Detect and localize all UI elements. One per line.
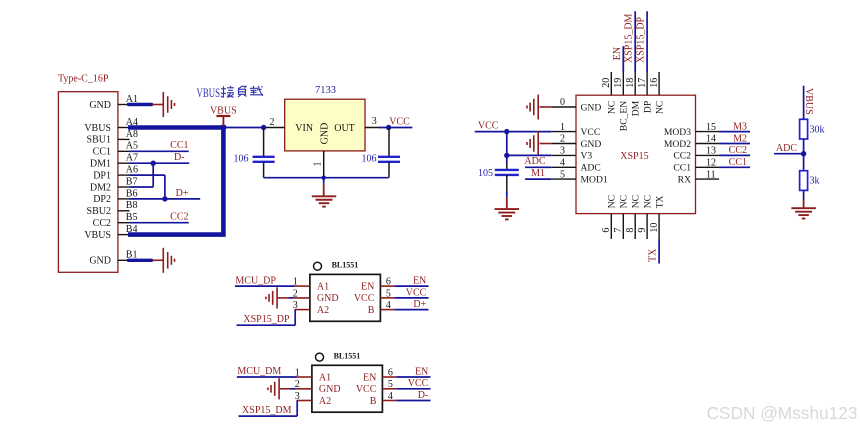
svg-text:B8: B8 [126,200,138,211]
svg-text:Type-C_16P: Type-C_16P [58,74,109,85]
wire DM1-DM2 link [129,163,153,187]
ground at A1 [152,92,175,117]
value 106 (right) [362,154,377,165]
svg-text:VCC: VCC [389,116,410,127]
svg-text:0: 0 [560,97,565,108]
svg-text:OUT: OUT [334,123,355,134]
pin 19 of XSP15 [613,72,624,95]
pin B8 [118,200,138,211]
net label D+ [176,188,189,199]
pin 13 of XSP15 [696,146,720,157]
svg-text:B: B [368,305,375,316]
net label MCU_DM [237,366,281,377]
wire MCU_DM [237,376,297,378]
svg-text:15: 15 [706,122,716,133]
svg-text:17: 17 [637,78,648,88]
wire D- (A7) [129,162,189,164]
svg-text:1: 1 [313,162,324,167]
wire VCC vertical to V3/cap [506,132,508,163]
pin 3 of XSP15 [551,146,576,157]
svg-text:2: 2 [560,134,565,145]
pin B7 [118,176,138,187]
net label EN [612,47,623,60]
pin B6 [118,188,138,199]
pin 14 of XSP15 [696,134,720,145]
wire ADC (pin4) [525,166,551,168]
ground at U4 pin2 [268,378,296,399]
net label CC1 [729,157,747,168]
wire D+ (B6) [129,198,200,200]
net label D- (U4) [418,390,429,401]
net label M1 [531,168,545,179]
analog switch U3 BL1551 [310,274,381,321]
svg-text:GND: GND [89,256,111,267]
wire V3 (pin3) [507,154,552,156]
net label CC1 [170,140,188,151]
svg-text:DM2: DM2 [90,182,111,193]
svg-text:XSP15_DP: XSP15_DP [243,314,290,325]
net label XSP15_DM [242,405,292,416]
net label M3 [733,121,747,132]
pin 3 of 7133 [365,116,381,128]
wire M2 [719,143,750,145]
pin 10 of XSP15 [649,214,660,239]
svg-text:2: 2 [295,379,300,390]
net label D- [174,152,185,163]
svg-text:VCC: VCC [356,384,377,395]
svg-text:MCU_DM: MCU_DM [237,366,281,377]
svg-text:DP1: DP1 [93,170,111,181]
svg-text:XSP15_DM: XSP15_DM [624,13,635,63]
svg-text:M3: M3 [733,121,747,132]
pin 1 of U4 [295,367,312,378]
pin 5 of U3 [380,288,394,299]
svg-text:5: 5 [386,288,391,299]
svg-text:3: 3 [560,146,565,157]
svg-text:18: 18 [625,78,636,88]
wire VCC (U3) [394,297,428,299]
svg-text:EN: EN [415,366,428,377]
svg-text:M2: M2 [733,133,747,144]
svg-text:4: 4 [388,391,393,402]
svg-text:B7: B7 [126,176,138,187]
svg-text:CC2: CC2 [93,218,111,229]
svg-text:8: 8 [625,228,636,233]
wire D+ (U3) [394,309,428,311]
pin 6 of XSP15 [601,214,612,239]
pin 2 of XSP15 [551,134,576,145]
designator circle U3 [314,262,322,270]
svg-text:11: 11 [706,169,716,180]
ground under C3 [495,197,520,219]
svg-text:MOD1: MOD1 [581,174,608,185]
wire VCC (U4) [396,388,430,390]
svg-text:A2: A2 [317,305,329,316]
connector J1 Type-C_16P [58,74,118,273]
net label EN (U3) [413,276,426,287]
svg-text:VCC: VCC [478,120,499,131]
svg-text:CSDN @Msshu123: CSDN @Msshu123 [706,403,857,423]
pin B1 [118,250,138,261]
svg-text:GND: GND [581,139,602,150]
wire EN (U3) [394,285,428,287]
svg-text:ADC: ADC [524,156,545,167]
svg-text:4: 4 [560,158,565,169]
wire TX (pin10) [658,239,660,264]
pin 16 of XSP15 [649,72,660,95]
net label VCC (U4) [408,378,429,389]
svg-text:4: 4 [386,300,391,311]
svg-text:30k: 30k [810,125,825,136]
svg-text:NC: NC [607,195,618,208]
svg-text:GND: GND [89,100,111,111]
ground at XSP15 pin0 [527,95,551,120]
wire ground rail under 7133 [264,178,389,184]
wire 30k to junction [803,139,805,171]
pin A4 [118,117,138,128]
svg-text:EN: EN [363,372,376,383]
svg-text:7133: 7133 [315,85,336,96]
svg-text:VBUS: VBUS [84,230,111,241]
svg-text:2: 2 [270,117,275,128]
svg-text:M1: M1 [531,168,545,179]
pin A5 [118,141,138,152]
svg-text:9: 9 [637,228,648,233]
wire M1 (pin5) [525,178,551,180]
svg-text:GND: GND [319,384,341,395]
wire D- (U4) [396,400,430,402]
ground under divider [791,200,816,219]
net label TX [648,248,659,262]
svg-text:VCC: VCC [406,287,427,298]
svg-text:VCC: VCC [408,378,429,389]
junction at C1 top [261,125,266,130]
pin 2 of 7133 [264,117,285,128]
wire ADC (divider) [774,153,804,155]
wire XSP15_DP [237,310,296,326]
pin 12 of XSP15 [696,158,720,169]
svg-text:A5: A5 [126,141,138,152]
ground under 7133 [312,184,337,207]
net label XSP15_DP [243,314,290,325]
wire B1 thick VBUS stub [128,259,151,262]
net label VCC (XSP15) [478,120,499,131]
analog switch U4 BL1551 [312,365,383,412]
value 106 (left) [234,154,249,165]
title text VBUS接负载 [197,85,264,100]
svg-text:3: 3 [293,300,298,311]
svg-text:106: 106 [234,154,249,165]
value label 7133 [315,85,336,96]
svg-text:V3: V3 [581,151,593,162]
svg-text:MOD2: MOD2 [664,139,691,150]
designator circle U4 [316,353,324,361]
svg-text:VBUS: VBUS [84,123,111,134]
pin 4 of XSP15 [551,158,576,169]
value 105 [478,168,493,179]
svg-text:B5: B5 [126,212,138,223]
wire CC2 [719,154,750,156]
svg-text:NC: NC [655,101,666,114]
svg-text:A2: A2 [319,396,331,407]
net label XSP15_DM [624,13,635,63]
pin 2 of U4 [295,379,312,390]
svg-text:CC1: CC1 [729,157,747,168]
junction ADC [801,151,806,156]
wire A1 thick VBUS stub [128,103,151,106]
net label VBUS (divider) [803,88,814,115]
pin 8 of XSP15 [625,214,636,239]
net label D+ (U3) [413,299,426,310]
pin A6 [118,165,138,176]
svg-text:BL1551: BL1551 [334,351,361,360]
svg-text:16: 16 [649,78,660,88]
svg-text:EN: EN [612,47,623,60]
pin 9 of XSP15 [637,214,648,239]
svg-text:MOD3: MOD3 [664,127,691,138]
net label MCU_DP [235,275,276,286]
svg-text:TX: TX [648,248,659,262]
svg-text:CC2: CC2 [729,145,747,156]
svg-text:ADC: ADC [776,143,797,154]
pin B5 [118,212,138,223]
junction ground rail [322,176,326,180]
svg-text:BL1551: BL1551 [332,261,359,270]
svg-text:A7: A7 [126,153,138,164]
resistor R2 3k [800,171,808,191]
svg-text:A6: A6 [126,165,138,176]
svg-text:VCC: VCC [354,293,375,304]
wire M3 [719,131,750,133]
svg-text:105: 105 [478,168,493,179]
net label XSP15_DP [636,16,647,63]
designator XSP15 [620,151,648,162]
svg-text:GND: GND [581,102,602,113]
pin A8 [118,129,138,140]
power port VBUS [210,106,237,126]
svg-text:VCC: VCC [581,127,601,138]
svg-text:12: 12 [706,158,716,169]
svg-text:ADC: ADC [581,163,601,174]
svg-text:TX: TX [655,195,666,208]
regulator U1 7133 [285,99,365,151]
ground at B1 [152,248,175,273]
capacitor C1 106 (input) [253,128,275,178]
pin 4 of U4 [382,391,396,402]
junction VBUS node [220,124,226,130]
svg-text:6: 6 [386,277,391,288]
junction V3 [504,153,509,158]
svg-text:DM1: DM1 [90,159,111,170]
svg-text:NC: NC [619,195,630,208]
pin 5 of XSP15 [551,169,576,180]
junction at C2 top [386,125,391,130]
svg-text:DP: DP [643,101,654,113]
svg-text:A1: A1 [319,372,331,383]
junction D- [151,161,156,166]
capacitor C3 105 [495,163,519,197]
wire VCC to pin1 [475,131,552,133]
svg-text:XSP15_DM: XSP15_DM [242,405,292,416]
svg-text:D-: D- [418,390,429,401]
pin 6 of U3 [380,277,394,288]
svg-text:CC1: CC1 [673,163,691,174]
pin 6 of U4 [382,367,396,378]
value 30k [810,125,825,136]
wire pin3 to VCC [379,127,412,129]
svg-text:13: 13 [706,146,716,157]
pin 1 of XSP15 [551,122,576,133]
svg-text:3: 3 [372,116,377,127]
svg-text:EN: EN [413,276,426,287]
pin 11 of XSP15 [696,169,720,180]
wire MCU_DP [235,285,295,287]
svg-text:7: 7 [613,228,624,233]
wire XSP15_DP (pin17) [646,11,648,72]
svg-text:NC: NC [607,101,618,114]
wire VBUS to pin2 [223,127,265,129]
wire EN (pin19) [622,46,624,72]
pin 3 of U3 [293,300,310,311]
pin 0 of XSP15 [551,97,576,108]
svg-text:RX: RX [678,174,691,185]
svg-text:D+: D+ [413,299,426,310]
net label EN (U4) [415,366,428,377]
pin 3 of U4 [295,391,312,402]
wire DP1-DP2 link [129,175,165,199]
svg-text:B6: B6 [126,188,138,199]
wire 3k to ground [803,190,805,200]
wire XSP15_DM (pin18) [634,11,636,72]
svg-text:5: 5 [388,379,393,390]
svg-text:DP2: DP2 [93,194,111,205]
svg-text:GND: GND [320,123,331,145]
svg-text:106: 106 [362,154,377,165]
junction VCC [504,129,509,134]
pin 7 of XSP15 [613,214,624,239]
ground at U3 pin2 [266,287,294,308]
wire XSP15_DM [239,401,298,417]
svg-text:GND: GND [317,293,339,304]
net label CC2 [729,145,747,156]
wire VBUS bus (A4 to B4) [128,128,223,235]
svg-text:CC1: CC1 [170,140,188,151]
wire CC1 (A5) [129,150,189,152]
svg-text:MCU_DP: MCU_DP [235,275,276,286]
pin 17 of XSP15 [637,72,648,95]
svg-text:14: 14 [706,134,716,145]
svg-text:VBUS: VBUS [210,106,237,117]
wire EN (U4) [396,376,430,378]
svg-text:A1: A1 [317,281,329,292]
pin 1 of U3 [293,277,310,288]
junction D+ [162,196,167,201]
svg-text:19: 19 [613,78,624,88]
svg-text:NC: NC [643,195,654,208]
svg-text:CC1: CC1 [93,147,111,158]
capacitor C2 106 (output) [378,128,400,178]
wire CC1 [719,166,750,168]
svg-text:XSP15_DP: XSP15_DP [636,16,647,63]
pin B4 [118,224,138,235]
svg-text:SBU2: SBU2 [87,206,111,217]
svg-text:DM: DM [631,100,642,116]
svg-text:EN: EN [361,281,374,292]
value 3k [810,176,820,187]
net label VCC (U3) [406,287,427,298]
pin A1 [118,94,138,105]
svg-text:XSP15: XSP15 [620,151,648,162]
svg-text:VIN: VIN [295,123,313,134]
net label ADC (XSP15) [524,156,545,167]
wire CC2 (B5) [129,222,189,224]
svg-text:CC2: CC2 [170,212,188,223]
svg-text:B: B [370,396,377,407]
ground at XSP15 pin2 [527,131,551,156]
svg-text:VBUS: VBUS [197,85,221,100]
net label ADC (divider) [776,143,797,154]
pin 20 of XSP15 [601,72,612,95]
svg-text:D+: D+ [176,188,189,199]
svg-text:5: 5 [560,169,565,180]
net label CC2 [170,212,188,223]
svg-text:2: 2 [293,288,298,299]
pin 1 (GND) of 7133 [313,151,324,178]
net label VCC (7133 out) [389,116,410,127]
svg-text:6: 6 [601,228,612,233]
svg-text:D-: D- [174,152,185,163]
net label M2 [733,133,747,144]
IC U2 XSP15 [576,95,696,213]
svg-text:10: 10 [649,223,660,233]
svg-text:3k: 3k [810,176,820,187]
svg-text:6: 6 [388,367,393,378]
svg-text:20: 20 [601,78,612,88]
watermark CSDN [706,403,857,423]
pin A7 [118,153,138,164]
svg-text:3: 3 [295,391,300,402]
part name BL1551 [332,261,359,270]
pin 5 of U4 [382,379,396,390]
svg-text:1: 1 [560,122,565,133]
svg-text:VBUS: VBUS [803,88,814,115]
svg-text:SBU1: SBU1 [87,135,111,146]
pin 2 of U3 [293,288,310,299]
svg-text:NC: NC [631,195,642,208]
pin 18 of XSP15 [625,72,636,95]
svg-text:BC_EN: BC_EN [619,101,630,131]
svg-text:CC2: CC2 [673,151,691,162]
pin 4 of U3 [380,300,394,311]
resistor R1 30k [800,119,808,139]
part name BL1551 [334,351,361,360]
svg-text:A8: A8 [126,129,138,140]
wire VBUS (divider top) [803,86,805,120]
pin 15 of XSP15 [696,122,720,133]
